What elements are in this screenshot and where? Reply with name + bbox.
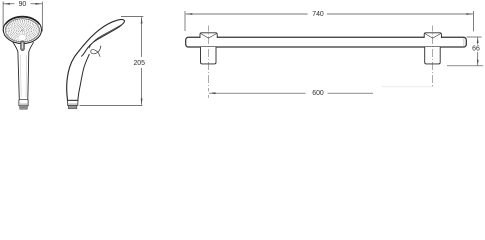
handle front view bottom nut xyxy=(19,100,28,106)
svg-text:600: 600 xyxy=(312,90,324,97)
handle front view inner shading xyxy=(19,55,22,97)
svg-text:90: 90 xyxy=(19,1,27,8)
shower side view face outline xyxy=(81,22,124,57)
dimension 740 extension lines xyxy=(185,11,474,31)
dimension 205 top extension line xyxy=(121,15,143,17)
shower head front view center clear zone xyxy=(18,34,26,40)
shower head front view inner rim xyxy=(5,19,39,42)
left bracket centerline xyxy=(207,26,209,99)
dimension 205 bottom extension line xyxy=(80,105,143,107)
shower head front view nozzle dots xyxy=(6,19,39,42)
right bracket body xyxy=(425,47,441,64)
shower head front view outer rim xyxy=(3,16,41,43)
dimension 90 extension lines xyxy=(3,2,42,32)
shower side view grip right edge xyxy=(78,54,90,100)
right bracket cap xyxy=(424,33,441,38)
dimension 66 bottom extension line xyxy=(447,65,483,67)
dimension 66 top extension line xyxy=(467,36,482,38)
left bracket cap xyxy=(200,33,217,38)
shower side view back outline xyxy=(67,20,125,100)
dimension 66 line xyxy=(477,38,479,66)
handle front view ferrule xyxy=(20,106,27,109)
handle front view outline xyxy=(13,42,34,99)
shower side view bottom nut xyxy=(67,100,78,105)
left bracket cap notch xyxy=(201,34,217,39)
dimension 740 line xyxy=(186,13,473,15)
dimension 205 line xyxy=(141,17,143,105)
svg-text:66: 66 xyxy=(472,45,480,52)
svg-text:740: 740 xyxy=(312,11,324,18)
dimension 600 line xyxy=(209,92,373,94)
right bracket cap notch xyxy=(425,34,441,39)
rail bar end seam xyxy=(463,38,465,46)
shower side view inlet loop xyxy=(91,46,101,57)
dimension 90 line xyxy=(4,3,42,5)
shower head front view emblem xyxy=(21,41,25,51)
left bracket body xyxy=(201,47,217,64)
shower head front view top rim accent xyxy=(5,17,39,25)
right bracket centerline xyxy=(432,26,434,87)
shower side view faceplate seam xyxy=(89,25,121,49)
shower side view ferrule xyxy=(68,106,76,109)
faint ghost line right of 600 xyxy=(382,86,432,88)
rail bar xyxy=(186,37,467,47)
svg-text:205: 205 xyxy=(133,60,145,67)
